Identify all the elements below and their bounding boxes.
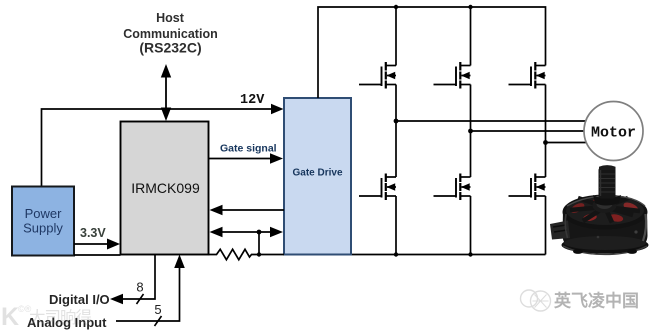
wire col1 source drop xyxy=(395,196,397,255)
node top rail col2 xyxy=(468,5,472,9)
right side highlight xyxy=(643,214,646,241)
bell top xyxy=(563,195,648,230)
red magnets xyxy=(569,201,586,215)
svg-text:Supply: Supply xyxy=(23,221,63,236)
resistor R shunt xyxy=(209,249,285,259)
top rim highlight xyxy=(567,196,645,206)
node phase B xyxy=(468,129,473,134)
svg-text:英飞凌中国: 英飞凌中国 xyxy=(554,291,639,311)
spokes over magnets xyxy=(570,198,640,223)
node junction on bidirectional wire xyxy=(257,230,262,235)
node bottom rail col1 xyxy=(394,252,398,256)
wire bottom rail xyxy=(352,254,546,256)
wire host communication (bidirectional) xyxy=(165,74,167,110)
svg-text:Gate signal: Gate signal xyxy=(220,143,277,155)
wire col2 source drop xyxy=(470,196,472,255)
svg-text:(RS232C): (RS232C) xyxy=(139,40,201,56)
gate drive block xyxy=(284,98,351,255)
svg-text:大司晌得: 大司晌得 xyxy=(29,308,92,327)
bus slash digital I/O xyxy=(137,294,144,304)
wire analog input xyxy=(116,266,180,321)
transistor Q1 high-side phase A xyxy=(359,62,396,89)
svg-text:IRMCK099: IRMCK099 xyxy=(131,180,200,196)
wire DC bus top rail xyxy=(318,7,546,98)
arrowhead 3.3V xyxy=(107,239,120,250)
transistor Q2 low-side phase A xyxy=(359,174,396,201)
wire phase A to motor xyxy=(396,120,587,122)
svg-text:12V: 12V xyxy=(240,93,265,108)
svg-text:Digital I/O: Digital I/O xyxy=(49,292,110,307)
wire col3 source drop xyxy=(545,196,547,255)
wire col3 mid xyxy=(545,85,547,178)
arrowhead left xyxy=(210,227,223,238)
node at resistor wire xyxy=(257,252,261,256)
node bottom rail col2 xyxy=(468,252,472,256)
wire col1 drain drop xyxy=(395,7,397,66)
wire 3.3V power supply to IRMCK099 xyxy=(74,243,108,245)
wire power supply bottom to IRMCK099 bottom xyxy=(74,254,121,256)
transistor Q3 high-side phase B xyxy=(434,62,471,89)
svg-text:3.3V: 3.3V xyxy=(80,226,106,240)
transistor Q6 low-side phase C xyxy=(509,174,546,201)
node phase A xyxy=(394,119,399,124)
arrowhead gate signal xyxy=(270,153,283,164)
wire col2 mid xyxy=(470,85,472,178)
hub xyxy=(593,198,617,213)
watermark left xyxy=(1,303,92,331)
svg-text:K: K xyxy=(1,303,19,331)
svg-text:Host: Host xyxy=(156,11,185,25)
arrowhead right xyxy=(270,227,283,238)
wire col1 mid xyxy=(395,85,397,178)
node phase C xyxy=(543,140,548,145)
wire bidirectional IRMCK099-gate drive xyxy=(221,231,272,233)
arrowhead down into IRMCK099 xyxy=(161,108,171,122)
body screw dots xyxy=(634,230,637,233)
power supply block xyxy=(12,187,74,256)
drum body xyxy=(563,210,648,248)
transistor Q4 low-side phase B xyxy=(434,174,471,201)
transistor Q5 high-side phase C xyxy=(509,62,546,89)
feet xyxy=(573,249,583,254)
arrowhead digital I/O xyxy=(110,294,123,305)
wire col2 drain drop xyxy=(470,7,472,66)
wire phase C to motor xyxy=(546,142,587,144)
svg-text:5: 5 xyxy=(154,302,161,317)
node top rail col1 xyxy=(394,5,398,9)
svg-text:Motor: Motor xyxy=(591,124,636,141)
arrowhead up to host xyxy=(161,64,171,78)
base ring xyxy=(562,236,649,253)
shaft xyxy=(599,168,616,199)
IRMCK099 block U1 xyxy=(121,122,209,255)
shaft collar xyxy=(593,195,621,206)
arrowhead feedback left xyxy=(210,205,223,216)
watermark right logo xyxy=(521,290,551,311)
motor M1 symbol xyxy=(584,102,643,161)
wire digital I/O xyxy=(121,255,155,300)
wire 12V: from power supply top, up and right to gate drive xyxy=(42,109,273,187)
arrowhead 12V into gate drive xyxy=(271,104,284,115)
svg-text:Power: Power xyxy=(25,206,63,221)
wire junction down to resistor xyxy=(258,232,260,255)
arrowhead analog input into IRMCK099 xyxy=(174,255,185,269)
svg-text:8: 8 xyxy=(136,280,143,295)
wire phase B to motor xyxy=(471,130,585,132)
wire gate signal arrow xyxy=(209,158,272,160)
motor photo (BLDC motor) xyxy=(550,165,649,254)
wire gate drive to IRMCK099 feedback xyxy=(222,209,284,211)
connector tab xyxy=(550,221,570,240)
svg-text:Gate Drive: Gate Drive xyxy=(292,168,342,179)
bus slash analog input xyxy=(155,316,162,326)
